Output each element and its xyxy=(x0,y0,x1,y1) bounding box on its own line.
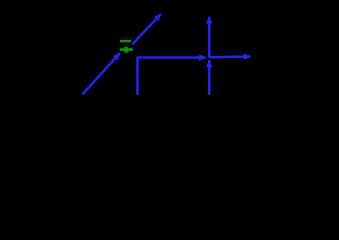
capacitor C1 positive plate (green plus mark) xyxy=(120,47,133,53)
wire: horizontal arrow from junction to the right xyxy=(209,55,250,58)
wire: L-shaped branch from bottom up and right into junction, arrow at junction xyxy=(138,58,206,95)
wire: vertical arrow from junction upward xyxy=(208,17,211,58)
capacitor C1 negative plate (green minus mark) xyxy=(120,40,131,43)
wire: vertical branch rising from bottom into junction, arrow at junction xyxy=(208,60,211,95)
wire: diagonal current arrow out of capacitor to upper-right xyxy=(132,14,161,44)
wire: diagonal current arrow from lower-left into capacitor xyxy=(83,53,121,94)
